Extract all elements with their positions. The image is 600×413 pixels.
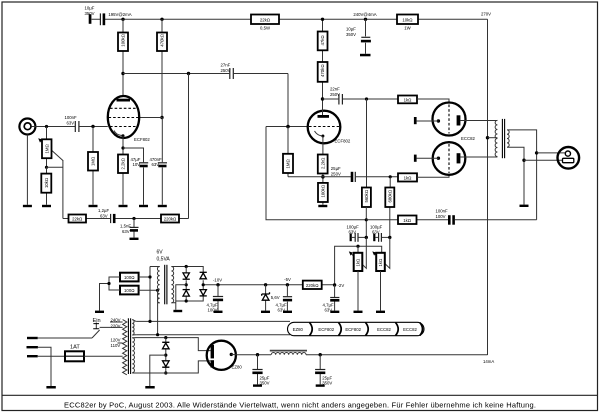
wire P3 bottom [380,271,382,311]
resistor R16 1k grid stopper V3a [398,96,417,104]
wire cathode V3a to terminal [417,120,439,122]
svg-text:10µF: 10µF [85,6,95,11]
tube V2 ECF802 triode [308,111,341,144]
wire pot bottom lead [46,167,48,204]
mains terminal PE [27,346,38,348]
svg-text:680kΩ: 680kΩ [387,190,392,203]
svg-text:1MΩ: 1MΩ [286,159,291,168]
resistor R20 220k [303,281,322,289]
grid g2 dashes [109,117,139,119]
resistor R19 10k 1W [397,15,418,25]
node pot P2 top [356,245,359,248]
transformer T1 mains core [127,318,129,374]
resistor R1 100k [118,33,128,52]
node C7 junction [132,217,135,220]
svg-text:10kΩ: 10kΩ [402,18,412,23]
diode D7 [163,361,170,367]
svg-text:100Ω: 100Ω [124,288,134,293]
wire HT top loop [132,338,210,351]
ground OT secondary [520,205,529,207]
svg-text:-10V: -10V [213,278,222,283]
grid g1 dashes [110,126,137,128]
wire bridge col2 [202,280,204,289]
wire bridge mid1 to ground [176,285,186,310]
capacitor C13 100uF 63V bias right [373,234,375,242]
wire mains L to switch [38,337,92,339]
node rail 560k [365,218,368,221]
svg-text:ECF802: ECF802 [134,137,150,142]
wire 560k lead [365,207,367,237]
wire node line y176.8 [288,176,398,178]
node pot bottom junction [45,166,48,169]
ground PE [46,386,55,389]
svg-text:1kΩ: 1kΩ [356,259,361,267]
resistor R12 100k [318,183,328,202]
diode D4 [200,290,206,296]
node jack tip [535,151,538,154]
output transformer T1 core [501,119,503,158]
wire HT diode column [165,338,167,373]
wire secondary bottom to ground [507,147,524,204]
svg-text:22kΩ: 22kΩ [260,18,270,23]
terminal bar cathode V3b [414,155,417,162]
ground C14 [330,311,339,313]
wire cathode V3b to terminal [417,157,439,159]
wire T2 primary top [150,266,160,268]
svg-text:6V: 6V [157,250,164,256]
cathode V3b [437,157,440,160]
svg-text:195V@2mA: 195V@2mA [108,12,131,17]
svg-text:1kΩ: 1kΩ [403,218,411,223]
svg-text:110V: 110V [111,343,121,348]
cathode V2 hook [315,131,323,136]
node -2V [333,283,336,286]
svg-text:27nF: 27nF [221,63,231,68]
wire zener stem [265,285,267,311]
node junction [187,72,190,75]
svg-text:ECC82: ECC82 [377,327,391,332]
svg-text:350V: 350V [85,11,95,16]
EZ80 cathode [230,353,233,356]
wire choke to B+ [306,354,488,356]
wire P2 bottom [357,271,359,311]
transformer T2 primary winding [157,267,159,303]
wire heater CT left [100,277,121,311]
node 195V@2mA [121,18,124,21]
wire bridge col1 [185,267,187,302]
wire jack sleeve to ground [26,135,28,205]
diode D3 [200,271,207,273]
potentiometer P3 1k body [376,253,385,271]
resistor R3 2.2k cathode [118,155,128,174]
svg-text:63V: 63V [152,162,160,167]
wire grid stopper to tube V3a [417,99,449,103]
wire cathode2 lead [322,136,324,205]
wire 680k lead [389,177,391,238]
node C12 to wiper1 [365,236,368,239]
svg-text:63V: 63V [349,230,357,235]
svg-text:1AT: 1AT [70,345,80,351]
svg-text:1kΩ: 1kΩ [378,259,383,267]
heater arc 4 [396,323,399,336]
wire cathode bypass branch [123,148,144,205]
svg-text:ECC82: ECC82 [461,136,475,141]
resistor R13 560k [362,188,371,208]
capacitor C9 25uF 250V [351,172,354,182]
svg-text:25µF: 25µF [331,166,341,171]
resistor R9 47k [318,32,328,51]
svg-text:ECC82er by PoC, August 2003. A: ECC82er by PoC, August 2003. Alle Widers… [64,401,536,410]
wire anode2 to C8 [323,98,399,100]
anode V3a plate [457,115,461,125]
resistor R8 1M grid2 [283,154,293,173]
node HT diode mid [164,354,167,357]
potentiometer P2 1k wiper [350,237,367,268]
wire pot top lead [46,127,48,168]
potentiometer P2 1k body [354,253,363,271]
capacitor C2 27nF 250V [229,68,231,79]
svg-text:14mA: 14mA [483,359,494,364]
svg-text:ECF802: ECF802 [318,327,334,332]
wire anode R1 lead [122,19,124,96]
svg-text:1MΩ: 1MΩ [91,157,96,166]
heater chain stadium [288,322,425,335]
primary tap 240V [110,321,123,323]
svg-text:220kΩ: 220kΩ [306,283,319,288]
node x366 top [365,97,368,100]
node 240V@4mA [364,18,367,21]
grid V3a dashes [448,105,450,134]
svg-text:63V: 63V [100,213,108,218]
cathode V3a [437,119,440,122]
wire anode V3a to transformer [460,120,497,122]
wire grid leak lead [92,127,94,205]
node bridge bottom [185,299,188,302]
node -5V [286,283,289,286]
svg-text:1kΩ: 1kΩ [404,97,412,102]
capacitor C16 4.7uF 100V [213,296,223,298]
wire secondary top to fb cap [507,130,537,220]
diode D2 [183,289,190,291]
anode plate V1 [117,99,131,102]
anode plate V2 [318,115,330,118]
svg-text:ECC82: ECC82 [403,327,417,332]
resistor R17 1k grid stopper V3b [398,173,417,181]
node grid1 junction [91,125,94,128]
diode D6 [162,341,169,343]
node heater rail top [148,320,151,323]
transformer T1 HT secondary [132,338,134,373]
output transformer T1 primary winding [495,120,497,156]
svg-text:0,5W: 0,5W [260,26,271,31]
wire T2 secondary top to bridge [171,267,203,273]
node anode1 [121,72,124,75]
heater arc 1 [310,323,313,336]
ground C16 [214,311,223,313]
grid V2 dashes [309,126,339,128]
svg-text:63V: 63V [372,230,380,235]
potentiometer P1 1M wiper diagonal [41,140,63,160]
capacitor C12 100uF 63V bias left [350,234,352,242]
node heater rail bottom [156,333,159,336]
arrowhead P2 [349,251,353,255]
EZ80 plate bar top [211,345,214,359]
capacitor C17 25uF 350V [252,369,262,371]
wire bridge bottom rail [171,296,203,303]
svg-text:1,5nF: 1,5nF [120,224,131,229]
wire grid stopper to tube V3b [417,175,449,178]
wire top supply rail 195V [92,18,488,20]
svg-text:47kΩ: 47kΩ [320,35,325,45]
capacitor C4 47uF 10V [139,162,148,164]
capacitor C11 10uF 350V [361,36,370,38]
resistor R21 100R heater top [120,273,139,282]
wire mains N to fuse [38,355,65,357]
node 680k top [389,175,392,178]
resistor R11 2.2k [318,155,328,174]
node screen g2 [160,116,163,119]
node R21 junction [148,275,151,278]
primary tap 120V [118,342,123,344]
grid g3 dashes [110,107,137,109]
svg-text:100nF: 100nF [65,115,78,120]
wire C14 stem [334,285,336,311]
resistor R10 470k [318,62,328,82]
wire R22 right to rail [139,290,158,334]
svg-text:240V: 240V [111,318,121,323]
wire C18 stem [319,355,321,385]
svg-text:10µF: 10µF [346,27,356,32]
svg-text:ECF802: ECF802 [335,139,351,144]
node bridge mid2 [202,283,205,286]
wire negative rail [203,284,334,286]
tube V3b ECC82 [433,142,466,175]
wire C11 stem [365,19,367,54]
wire R21 right to rail [139,267,150,322]
node cathode2 [321,175,325,179]
wire B+ 270V drop [487,19,489,355]
svg-text:100Ω: 100Ω [124,275,134,280]
EZ80 plate bar bottom [211,360,214,367]
diode D1 [183,273,189,279]
resistor R2 470k [157,33,167,52]
ground cathode bypass [139,205,148,207]
svg-text:-5V: -5V [284,277,291,282]
heater rail top [136,320,290,322]
svg-text:2,2kΩ: 2,2kΩ [320,158,325,169]
capacitor C18 25uF 350V [315,369,325,371]
ground zener [261,311,270,313]
wire feedback row [63,218,189,220]
wire mains PE to ground [38,347,51,386]
ground cathode R3 [119,205,128,207]
svg-text:470kΩ: 470kΩ [320,64,325,77]
ground jack [23,205,32,207]
capacitor C15 4.7uF 63V [283,296,292,298]
resistor R15 1k rail [398,216,417,225]
wire anode2 chain x322 [322,19,324,115]
ground screen bypass [158,205,167,207]
svg-text:-2V: -2V [338,283,345,288]
wire anode1 to coupling cap [123,74,288,127]
node bridge top [185,265,188,268]
node C13 to wiper2 [388,236,391,239]
zener diode D5 5.6V [262,294,269,300]
arrowhead P1 [38,138,42,142]
tube V3a ECC82 [433,103,466,136]
anode V3b plate [457,153,461,163]
ground bridge [173,310,182,312]
node bridge mid1 [185,283,188,286]
resistor R5 1M grid leak [88,152,98,171]
svg-text:470kΩ: 470kΩ [160,34,165,47]
ground HT CT [145,386,154,389]
capacitor C10 100nF 100V [448,215,451,225]
ground P3 [376,311,385,313]
svg-text:ECF802: ECF802 [345,327,361,332]
svg-text:220V: 220V [111,324,121,329]
resistor R7 220k feedback [161,215,179,223]
node zener [264,283,267,286]
terminal bar cathode V3a [414,117,417,124]
capacitor C3 470nF 63V [158,162,167,164]
svg-text:100V: 100V [436,214,446,219]
svg-text:EZ80: EZ80 [232,365,243,370]
wire C17 stem [257,355,259,385]
svg-text:EZ80: EZ80 [293,327,304,332]
capacitor C6 1.2uF 63V [110,214,112,223]
svg-text:250V: 250V [331,171,341,176]
mains terminal N [27,355,38,357]
node heater CT [107,282,110,285]
capacitor C8 22nF 250V [338,94,340,105]
wire cathode lead [122,136,124,205]
heater rail bottom [136,334,290,336]
svg-text:270V: 270V [481,12,491,17]
output jack J2 [558,147,580,169]
mains terminal L [27,337,38,339]
wire B+ to primary mid [488,137,498,139]
svg-text:1kΩ: 1kΩ [404,175,412,180]
wire diode mid to ground [150,355,166,386]
wire rail to output cap [366,219,536,221]
transformer T1 heater secondary [132,320,134,335]
svg-text:250V: 250V [330,92,340,97]
svg-text:350V: 350V [346,32,356,37]
wire grid2 leak lead [287,127,289,177]
choke L1 core [270,350,307,352]
svg-text:63V: 63V [67,120,75,125]
svg-text:10kΩ: 10kΩ [44,178,49,188]
svg-text:240V@4mA: 240V@4mA [353,12,376,17]
node jack sleeve [522,159,525,162]
svg-text:22nF: 22nF [330,87,340,92]
wire HT bottom loop [132,361,210,373]
tube V1 ECF802 pentode [108,96,139,138]
transformer T2 secondary winding [171,267,173,303]
node B+ to OT primary [486,136,489,139]
svg-text:22kΩ: 22kΩ [72,216,82,221]
wire C16 stem [217,285,219,311]
node -10V [216,283,219,286]
node C17 [256,353,259,356]
wire C15 stem [286,285,288,311]
node anode2 coupling [321,97,324,100]
ground C11 [360,54,371,57]
wire fuse to primary [84,355,123,357]
potentiometer P3 1k wiper [373,237,390,268]
heater arc 2 [339,323,342,336]
resistor R14 680k [385,188,394,208]
svg-text:1,2µF: 1,2µF [98,208,109,213]
wire x366 drop [366,99,368,188]
ground C15 [283,311,292,313]
ground C7 [130,238,139,240]
node grid2 [286,125,290,129]
ground R4 [42,205,51,207]
grid V3b dashes [448,144,450,173]
capacitor C1 10uF 350V input terminal [89,14,92,24]
wire rail drop x266 [266,127,366,220]
wire to jack tip [537,152,566,154]
node R22 junction [156,289,159,292]
svg-text:10V: 10V [133,162,141,167]
ground P2 [354,311,363,313]
svg-text:1MΩ: 1MΩ [44,144,49,153]
ground C18 [316,384,325,386]
svg-text:1W: 1W [404,26,411,31]
node HT diode top [164,336,167,339]
svg-text:220kΩ: 220kΩ [164,216,177,221]
svg-text:120V: 120V [111,337,121,342]
wire jack to grid [31,126,107,128]
wire screen to tube [139,117,162,119]
svg-text:63V: 63V [122,229,130,234]
heater arc 3 [366,323,369,336]
svg-text:560kΩ: 560kΩ [364,190,369,203]
resistor R6 22k feedback [69,215,87,223]
wire -2V riser [335,246,382,285]
wire to jack sleeve [524,159,563,161]
cathode V1 hook [114,131,123,136]
wire anode V3b to transformer [460,156,497,158]
input jack J1 [19,119,35,135]
capacitor C14 4.7uF 63V [330,297,339,299]
wire EZ80 cathode out [231,353,271,355]
arrowhead P3 [372,251,376,255]
tube V4 EZ80 rectifier [207,341,236,370]
heater arc 5 [420,323,423,336]
wire screen resistor leads [161,19,163,117]
node HT diode bottom [164,371,167,374]
wire P2 top lead [357,246,359,253]
wire heater secondary to rails [132,320,136,335]
svg-text:100kΩ: 100kΩ [321,185,326,198]
wire pot bottom to feedback [47,160,63,219]
resistor R18 22k 0.5W [251,15,279,25]
choke L1 winding [271,353,306,355]
wire C7 stem [133,219,135,238]
capacitor C5 100nF 63V coupling [74,121,76,132]
svg-text:0,5VA: 0,5VA [157,257,171,263]
output transformer T1 secondary winding [507,130,509,147]
wire screen bypass lead [161,118,163,205]
wire T2 primary bottom [158,302,160,304]
ground heater CT [95,311,104,313]
node C18 [319,353,322,356]
svg-text:2,2kΩ: 2,2kΩ [121,158,126,169]
caption separator line [2,394,598,396]
